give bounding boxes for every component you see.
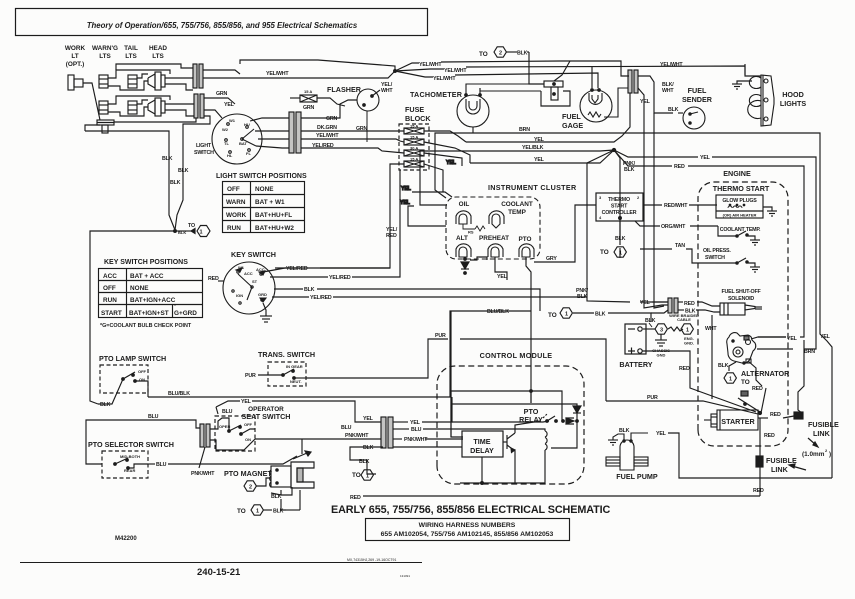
svg-text:RS: RS: [468, 230, 474, 235]
svg-text:PNK/WHT: PNK/WHT: [345, 433, 369, 439]
svg-text:OFF: OFF: [244, 422, 253, 427]
svg-text:FUSE: FUSE: [405, 105, 424, 114]
row1 wiring frame: [108, 70, 170, 78]
wire BLU selector to pto magnet: [148, 439, 302, 464]
wire RED right bus: [614, 150, 672, 166]
svg-text:BAT+HU+FL: BAT+HU+FL: [255, 212, 292, 219]
svg-text:BLOCK: BLOCK: [405, 114, 431, 123]
wire YEL/WHT: [301, 139, 404, 142]
svg-text:YEL: YEL: [640, 300, 651, 306]
svg-text:BLK: BLK: [668, 107, 679, 113]
module bottom wires: [481, 457, 483, 483]
svg-text:PTO LAMP SWITCH: PTO LAMP SWITCH: [99, 354, 166, 363]
svg-text:BRN: BRN: [804, 349, 815, 355]
svg-text:BLK: BLK: [178, 168, 189, 174]
svg-text:GAGE: GAGE: [562, 121, 583, 130]
svg-text:RED: RED: [386, 233, 397, 239]
thermo start controller: [596, 193, 643, 221]
wire RED to fusible link: [758, 417, 768, 419]
transistor: [503, 441, 507, 443]
svg-text:RED: RED: [208, 276, 219, 282]
svg-text:BLU/BLK: BLU/BLK: [487, 309, 509, 315]
svg-text:BLK: BLK: [304, 287, 315, 293]
svg-text:RED: RED: [350, 495, 361, 501]
svg-text:BAT+HU+W2: BAT+HU+W2: [255, 225, 294, 232]
battery hexagon 1: [681, 324, 693, 334]
svg-text:THERMO: THERMO: [608, 197, 630, 203]
key switch ground: [260, 303, 272, 322]
svg-text:YEL: YEL: [410, 420, 421, 426]
svg-text:ACC: ACC: [256, 267, 265, 272]
tach wires to right: [466, 84, 529, 88]
svg-text:HU: HU: [244, 122, 250, 127]
wire BRN: [505, 133, 832, 478]
svg-text:COOLANT TEMP.: COOLANT TEMP.: [720, 227, 761, 233]
magnet bracket: [291, 462, 314, 488]
svg-text:GRN: GRN: [216, 91, 228, 97]
svg-text:YEL: YEL: [820, 334, 831, 340]
svg-text:OFF: OFF: [227, 186, 240, 193]
tail lamp row2: [128, 101, 137, 114]
wire battery plus to starter: [642, 351, 756, 412]
svg-text:RED: RED: [764, 433, 775, 439]
wire PNK/BLK: [587, 150, 630, 302]
svg-text:30 A: 30 A: [410, 146, 418, 151]
wire GRN flasher down: [366, 111, 368, 142]
svg-text:W1: W1: [238, 265, 245, 270]
relay coil: [545, 431, 547, 450]
svg-text:LTS: LTS: [125, 53, 137, 60]
svg-text:RED: RED: [679, 366, 690, 372]
svg-text:RUN: RUN: [103, 297, 117, 304]
svg-text:YEL: YEL: [656, 431, 667, 437]
svg-text:TAN: TAN: [675, 243, 685, 249]
svg-text:YEL: YEL: [446, 160, 457, 166]
svg-text:BLU: BLU: [156, 462, 167, 468]
wire RED key switch: [218, 280, 224, 282]
svg-text:TO: TO: [352, 472, 361, 479]
svg-text:LT: LT: [71, 53, 78, 60]
fuel gage sender T-connector: [541, 61, 570, 106]
svg-text:HL: HL: [227, 153, 233, 158]
svg-text:ON: ON: [139, 377, 145, 382]
svg-text:TIME: TIME: [473, 437, 490, 446]
svg-text:2: 2: [249, 485, 252, 491]
svg-text:PUR: PUR: [435, 333, 446, 339]
svg-text:YEL/WHT: YEL/WHT: [444, 68, 467, 74]
wire YEL/WHT from left lamps: [203, 71, 395, 78]
key switch wires right: [263, 170, 587, 311]
svg-text:1: 1: [729, 377, 732, 383]
svg-text:TO: TO: [237, 508, 246, 515]
svg-text:2: 2: [499, 51, 502, 57]
svg-text:YEL/RED: YEL/RED: [312, 143, 334, 149]
ground chassis: [655, 334, 667, 346]
svg-text:ACC: ACC: [244, 271, 253, 276]
svg-text:YEL: YEL: [363, 416, 374, 422]
magnet coil: [271, 466, 291, 487]
svg-text:BAT+IGN+ACC: BAT+IGN+ACC: [130, 297, 176, 304]
svg-text:IGN: IGN: [236, 293, 243, 298]
gage connector pair: [628, 70, 673, 302]
ground hood lights: [732, 64, 761, 89]
svg-text:YEL/RED: YEL/RED: [286, 266, 308, 272]
svg-text:YEL/WHT: YEL/WHT: [419, 62, 442, 68]
svg-text:HEAD: HEAD: [149, 45, 167, 52]
svg-text:YEL/BLK: YEL/BLK: [522, 145, 544, 151]
svg-text:BAT: BAT: [239, 141, 247, 146]
svg-text:655 AM102054, 755/756 AM102145: 655 AM102054, 755/756 AM102145, 855/856 …: [381, 531, 554, 538]
svg-text:YEL/WHT: YEL/WHT: [316, 133, 339, 139]
svg-text:LIGHT: LIGHT: [196, 143, 212, 149]
seat switch connector: [200, 418, 255, 447]
svg-text:YEL: YEL: [534, 137, 545, 143]
wire YEL solenoid: [652, 301, 668, 303]
svg-text:RED/WHT: RED/WHT: [664, 203, 688, 209]
T-connector lamp ground: [97, 120, 114, 125]
svg-text:YEL/RED: YEL/RED: [329, 275, 351, 281]
svg-text:PREHEAT: PREHEAT: [479, 235, 509, 242]
svg-text:BLK: BLK: [645, 318, 656, 324]
wire YEL to cluster: [412, 192, 452, 197]
svg-text:BLK: BLK: [619, 428, 630, 434]
svg-text:THERMO START: THERMO START: [713, 184, 770, 193]
wire PNK/WHT seat connector: [199, 439, 381, 468]
svg-text:BLK: BLK: [615, 236, 626, 242]
svg-text:*: *: [174, 304, 176, 310]
wire YEL/WHT mid: [395, 69, 444, 71]
svg-text:FLASHER: FLASHER: [327, 85, 362, 94]
alternator: [727, 333, 756, 365]
svg-text:PTO: PTO: [518, 236, 531, 243]
svg-text:ON: ON: [245, 437, 251, 442]
node TO 1 hexagon (lamp ground): [191, 226, 210, 237]
svg-text:Theory of Operation/655, 755/7: Theory of Operation/655, 755/756, 855/85…: [87, 21, 358, 30]
wire YEL/RED: [270, 276, 328, 278]
wire YEL lower: [408, 206, 446, 226]
svg-text:KEY SWITCH: KEY SWITCH: [231, 250, 276, 259]
svg-text:TO: TO: [479, 51, 488, 58]
fuse block wires: [275, 131, 470, 268]
svg-text:CONTROL MODULE: CONTROL MODULE: [480, 351, 553, 360]
diode ALT: [461, 258, 469, 275]
svg-text:GRY: GRY: [546, 256, 557, 262]
svg-text:YEL/WHT: YEL/WHT: [660, 62, 683, 68]
svg-text:GRD: GRD: [258, 292, 267, 297]
svg-text:BLK: BLK: [363, 445, 374, 451]
svg-text:NONE: NONE: [255, 186, 274, 193]
svg-text:(OR) AIR HEATER: (OR) AIR HEATER: [723, 213, 757, 218]
svg-text:MID-BOTH: MID-BOTH: [120, 454, 140, 459]
svg-text:W1: W1: [229, 118, 236, 123]
fuel pump: [606, 433, 648, 470]
svg-text:WIRING HARNESS NUMBERS: WIRING HARNESS NUMBERS: [419, 522, 516, 529]
alternator TO 1 hexagon: [724, 373, 736, 383]
wire DK.GRN to flasher: [301, 130, 404, 132]
alternator wires: [729, 337, 786, 386]
svg-text:BLK: BLK: [178, 230, 186, 235]
svg-text:): ): [829, 451, 831, 458]
wires into starter top: [363, 340, 804, 496]
light switch to connector wires: [250, 100, 404, 153]
wire work light to T-connector: [83, 83, 100, 120]
svg-text:W2: W2: [222, 127, 229, 132]
svg-text:FUEL SHUT-OFF: FUEL SHUT-OFF: [721, 289, 761, 295]
svg-text:WHT: WHT: [662, 88, 674, 94]
svg-text:STARTER: STARTER: [721, 417, 755, 426]
svg-text:KEY SWITCH POSITIONS: KEY SWITCH POSITIONS: [104, 259, 188, 266]
svg-text:SOLENOID: SOLENOID: [728, 296, 754, 302]
svg-text:BLK: BLK: [517, 51, 528, 57]
svg-text:HOOD: HOOD: [782, 90, 804, 99]
svg-text:RED: RED: [674, 164, 685, 170]
wires connector right: GRN: [301, 100, 357, 118]
svg-text:NEUT.: NEUT.: [290, 379, 302, 384]
connector pair lower: [194, 94, 198, 118]
svg-text:FUEL PUMP: FUEL PUMP: [616, 472, 658, 481]
svg-text:RED: RED: [684, 301, 695, 307]
svg-text:BLK: BLK: [273, 509, 284, 515]
svg-text:PNK/WHT: PNK/WHT: [404, 437, 428, 443]
svg-text:YEL: YEL: [787, 336, 798, 342]
svg-text:1: 1: [686, 328, 689, 334]
svg-text:BLU/BLK: BLU/BLK: [168, 391, 190, 397]
svg-text:DELAY: DELAY: [470, 446, 494, 455]
svg-text:RED: RED: [752, 386, 763, 392]
svg-text:GLOW PLUGS: GLOW PLUGS: [722, 198, 757, 204]
main harness connector: [350, 397, 549, 470]
svg-text:YEL: YEL: [700, 155, 711, 161]
svg-text:BLU: BLU: [148, 414, 159, 420]
battery: [625, 324, 646, 355]
svg-text:LIGHT SWITCH POSITIONS: LIGHT SWITCH POSITIONS: [216, 173, 307, 180]
light circuit connector pair: [289, 112, 294, 153]
svg-text:TACHOMETER: TACHOMETER: [410, 90, 463, 99]
svg-text:1: 1: [199, 230, 202, 236]
tail lamp row1: [128, 75, 137, 88]
wire BLU/BLK pto lamp to module: [148, 311, 531, 397]
wire BLK left run down to PTO lamp switch: [90, 231, 175, 404]
svg-text:ENGINE: ENGINE: [723, 169, 751, 178]
svg-text:YEL: YEL: [401, 186, 412, 192]
diode right: [566, 418, 574, 424]
svg-text:FUSIBLE: FUSIBLE: [808, 420, 839, 429]
ground bus wires: [85, 125, 100, 131]
svg-text:TO: TO: [600, 249, 609, 256]
svg-text:WHT: WHT: [705, 326, 717, 332]
svg-text:FUEL: FUEL: [562, 112, 581, 121]
wires: [280, 490, 282, 495]
svg-text:YEL: YEL: [241, 399, 252, 405]
svg-text:YEL: YEL: [224, 102, 235, 108]
module internal wires: [451, 391, 562, 437]
svg-text:LIGHTS: LIGHTS: [780, 99, 807, 108]
svg-text:ST: ST: [252, 279, 258, 284]
svg-text:1: 1: [256, 509, 259, 515]
svg-text:PTO MAGNET: PTO MAGNET: [224, 469, 272, 478]
wire WHT solenoid down: [711, 315, 713, 399]
wire PUR trans switch to starter: [306, 339, 606, 401]
svg-text:TL: TL: [224, 141, 229, 146]
wire YEL right bus: [614, 150, 698, 157]
svg-text:BLK: BLK: [170, 180, 181, 186]
wire YEL preheat: [495, 257, 507, 280]
wire BLU/BLK pto lamp: [526, 257, 531, 311]
head lamp row2: [148, 100, 155, 114]
svg-text:PNK/WHT: PNK/WHT: [191, 471, 215, 477]
svg-text:WORK: WORK: [65, 45, 86, 52]
svg-text:BLU: BLU: [222, 409, 233, 415]
svg-text:1: 1: [619, 251, 622, 257]
svg-text:RUN: RUN: [227, 225, 241, 232]
svg-text:OIL PRESS.: OIL PRESS.: [703, 248, 731, 254]
svg-text:1: 1: [366, 474, 369, 480]
row2 wiring frame: [108, 96, 170, 104]
svg-text:BLK: BLK: [624, 167, 635, 173]
svg-text:TAIL: TAIL: [124, 45, 138, 52]
svg-text:ORG/WHT: ORG/WHT: [661, 224, 686, 230]
footer rule: [20, 562, 422, 564]
svg-text:OIL: OIL: [459, 201, 470, 208]
wire YEL mid: [466, 93, 630, 142]
svg-text:BAT + W1: BAT + W1: [255, 199, 285, 206]
svg-text:15 A: 15 A: [410, 135, 418, 140]
relay contact: [546, 420, 549, 423]
wire YEL/RED ign: [272, 296, 309, 298]
wire YEL fuel pump loop: [668, 433, 832, 478]
svg-text:M42200: M42200: [115, 536, 137, 542]
wires connector to light switch: [203, 70, 240, 74]
svg-text:TO: TO: [188, 223, 195, 229]
wire YEL/RED acc: [263, 268, 296, 272]
svg-text:TO: TO: [548, 312, 557, 319]
svg-text:COOLANT: COOLANT: [501, 201, 533, 208]
svg-text:BLK: BLK: [100, 402, 111, 408]
svg-text:PUR: PUR: [245, 373, 256, 379]
svg-text:RED: RED: [753, 488, 764, 494]
cluster wires: [400, 93, 832, 478]
svg-text:START: START: [101, 310, 122, 317]
wire YEL/BLK: [420, 150, 614, 205]
svg-text:WARN: WARN: [226, 199, 246, 206]
head lamp row1: [148, 74, 155, 88]
svg-text:OFF: OFF: [103, 285, 116, 292]
svg-text:1: 1: [565, 312, 568, 318]
light switch: [212, 114, 262, 164]
svg-text:IN GEAR: IN GEAR: [286, 364, 303, 369]
svg-text:15 A: 15 A: [410, 124, 418, 129]
svg-text:WHT: WHT: [381, 88, 393, 94]
svg-text:ALTERNATOR: ALTERNATOR: [741, 369, 790, 378]
svg-text:GND.: GND.: [684, 341, 694, 346]
svg-text:YEL: YEL: [497, 274, 508, 280]
svg-text:15 A: 15 A: [410, 157, 418, 162]
svg-text:LTS: LTS: [152, 53, 164, 60]
svg-text:131091: 131091: [400, 574, 410, 578]
svg-text:TO: TO: [741, 379, 750, 386]
svg-text:ALT: ALT: [456, 235, 468, 242]
svg-text:BLK: BLK: [271, 494, 282, 500]
svg-text:YEL: YEL: [534, 157, 545, 163]
svg-text:PTO SELECTOR SWITCH: PTO SELECTOR SWITCH: [88, 440, 174, 449]
svg-text:START: START: [611, 204, 628, 210]
svg-text:GRN: GRN: [356, 126, 368, 132]
svg-text:BRN: BRN: [519, 127, 530, 133]
svg-text:(1.0mm: (1.0mm: [802, 451, 825, 458]
svg-text:SWITCH: SWITCH: [194, 150, 214, 156]
wire YEL seat: [216, 401, 381, 422]
wire BLK: [274, 288, 303, 290]
wire vertical module to battery area: [530, 311, 533, 403]
wire RED down to fusible link 2: [759, 418, 761, 456]
svg-text:WARN'G: WARN'G: [92, 45, 118, 52]
svg-text:BLU: BLU: [341, 425, 352, 431]
svg-text:LINK: LINK: [771, 465, 789, 474]
fusible link 1: [794, 412, 803, 419]
solenoid connector pair: [644, 113, 720, 313]
wire braided cable squiggle: [668, 327, 683, 331]
svg-text:TRANS. SWITCH: TRANS. SWITCH: [258, 350, 315, 359]
svg-text:RED: RED: [770, 412, 781, 418]
svg-text:WORK: WORK: [226, 212, 247, 219]
svg-text:SENDER: SENDER: [682, 95, 713, 104]
wire YEL/RED: [301, 148, 404, 153]
svg-text:GRN: GRN: [326, 116, 338, 122]
svg-text:TEMP: TEMP: [508, 209, 526, 216]
junction X: [612, 148, 615, 151]
svg-text:LINK: LINK: [813, 429, 831, 438]
svg-text:MX,74315HJ,269 -19-16OCT91: MX,74315HJ,269 -19-16OCT91: [347, 558, 396, 562]
wiring harness numbers box: [366, 519, 570, 541]
ground glow plugs: [763, 207, 777, 216]
svg-text:FUEL: FUEL: [688, 86, 707, 95]
svg-text:FUSIBLE: FUSIBLE: [766, 456, 797, 465]
svg-text:GND: GND: [657, 353, 666, 358]
svg-text:GRN: GRN: [303, 105, 315, 111]
wire RED: [678, 301, 683, 303]
svg-text:NONE: NONE: [130, 285, 149, 292]
wire GRY: [534, 205, 596, 262]
svg-text:OFF: OFF: [138, 369, 147, 374]
svg-text:REAR: REAR: [124, 468, 135, 473]
work light lamp: [68, 75, 74, 90]
svg-text:BLK: BLK: [595, 312, 606, 318]
svg-text:YEL/RED: YEL/RED: [310, 295, 332, 301]
svg-text:G+GRD: G+GRD: [174, 310, 197, 317]
wire YEL/WHT top: [395, 63, 419, 71]
svg-text:BATTERY: BATTERY: [619, 360, 652, 369]
yel/wht fan junction: [203, 60, 745, 88]
connector pair upper: [193, 64, 197, 88]
svg-text:(OPT.): (OPT.): [66, 61, 84, 68]
battery hexagon 3: [643, 324, 667, 334]
svg-text:LTS: LTS: [99, 53, 111, 60]
svg-text:YEL: YEL: [640, 99, 651, 105]
svg-text:BAT+IGN+ST: BAT+IGN+ST: [129, 310, 169, 317]
svg-text:PUR: PUR: [647, 395, 658, 401]
svg-text:BLU: BLU: [411, 427, 422, 433]
flasher fuse 15A: [290, 95, 345, 106]
svg-text:YEL/WHT: YEL/WHT: [433, 76, 456, 82]
wire BLU loop left: [86, 420, 200, 464]
warn lamp row2: [99, 101, 108, 114]
svg-text:BLK: BLK: [162, 156, 173, 162]
svg-text:15 A: 15 A: [304, 89, 312, 94]
svg-text:BAT + ACC: BAT + ACC: [130, 273, 164, 280]
svg-text:*G=COOLANT BULB CHECK POINT: *G=COOLANT BULB CHECK POINT: [100, 323, 192, 329]
svg-text:240-15-21: 240-15-21: [197, 567, 241, 578]
wire YEL/WHT low: [395, 71, 433, 77]
